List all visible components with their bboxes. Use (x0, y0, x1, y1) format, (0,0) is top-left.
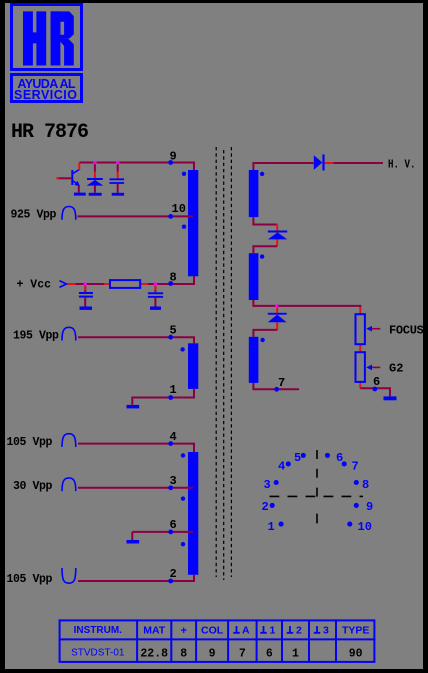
pin view dot 1 (279, 522, 284, 527)
pin 10 dot (168, 214, 173, 219)
svg-text:3: 3 (170, 474, 177, 488)
svg-text:105 Vpp: 105 Vpp (7, 573, 53, 586)
ground under transistor (74, 193, 86, 196)
table header ⊥3 (314, 626, 320, 633)
svg-text:6: 6 (266, 648, 273, 661)
svg-text:1: 1 (292, 648, 299, 661)
wire S2 bottom long node to FOCUS chain (253, 300, 360, 308)
svg-text:STVDST-01: STVDST-01 (71, 648, 125, 659)
pin view dot 3 (274, 480, 279, 485)
diode D2 (268, 231, 287, 240)
red segments Vcc row (67, 283, 148, 285)
wire S3 bottom pin7 row (253, 383, 299, 389)
pin 6 dot (168, 530, 173, 535)
red stub G2 bottom (359, 382, 361, 388)
red link FOCUS to G2 (359, 344, 361, 352)
capacitor C2 (79, 284, 93, 307)
wire pin8 row (+Vcc) (75, 276, 194, 284)
svg-text:105 Vpp: 105 Vpp (7, 436, 53, 449)
resistor G2 (356, 352, 365, 382)
wire pin1 to ground (132, 389, 194, 405)
junction dot (cap C2 top) (84, 282, 87, 285)
svg-text:1: 1 (270, 625, 276, 637)
pin view dot 6 (325, 453, 330, 458)
svg-text:2: 2 (262, 500, 269, 514)
svg-text:5: 5 (170, 324, 177, 338)
svg-text:3: 3 (323, 625, 329, 637)
svg-text:10: 10 (358, 520, 372, 534)
wire pin6 tap to ground (132, 532, 193, 540)
table header ⊥1 (260, 626, 266, 633)
svg-text:925 Vpp: 925 Vpp (11, 209, 57, 222)
capacitor C1 (110, 164, 125, 193)
svg-text:1: 1 (268, 520, 275, 534)
svg-text:4: 4 (170, 430, 177, 444)
pin 6 right dot (372, 387, 377, 392)
svg-text:8: 8 (180, 648, 187, 661)
polarity dot P1 top (182, 172, 186, 176)
pin view crosshair vertical (316, 450, 318, 498)
data table (59, 619, 376, 663)
wire S1 top to HV diode (253, 163, 313, 170)
pin 5 dot (168, 335, 173, 340)
Vcc input terminal (60, 281, 67, 288)
svg-text:+: + (180, 625, 186, 637)
svg-text:MAT: MAT (143, 625, 166, 637)
svg-text:H. V.: H. V. (388, 158, 416, 172)
wire pin10 row (925 Vpp) (78, 215, 194, 217)
polarity dot P3 b (181, 496, 185, 500)
svg-text:4: 4 (278, 460, 285, 474)
svg-text:FOCUS: FOCUS (389, 324, 424, 338)
svg-text:2: 2 (170, 567, 177, 581)
pin view dot 2 (270, 503, 275, 508)
waveform 105 Vpp inverted (62, 568, 76, 583)
FOCUS arrow (366, 326, 380, 332)
ground under C2 (80, 307, 93, 310)
junction dot (cap C3 top) (154, 282, 157, 285)
red stub into FOCUS resistor (359, 307, 361, 314)
svg-text:9: 9 (170, 150, 177, 164)
pin 8 dot (168, 281, 173, 286)
ground under capacitor C1 (112, 193, 124, 196)
secondary winding S3 (249, 337, 259, 383)
HV rectifier diode (314, 154, 325, 170)
ground under diode D1 (89, 193, 102, 196)
wire HV diode to H.V. label (333, 162, 383, 164)
svg-text:195 Vpp: 195 Vpp (13, 329, 59, 342)
pin 2 dot (168, 579, 173, 584)
svg-text:TYPE: TYPE (342, 625, 369, 637)
pin view crosshair horizontal (270, 495, 364, 497)
wire S1 bottom to diode D2 (253, 217, 277, 224)
red stub into D2 (276, 225, 278, 231)
svg-text:7: 7 (352, 460, 359, 474)
waveform 30 Vpp (62, 478, 76, 491)
primary winding P2 (pins 5-1) (188, 343, 198, 389)
pin 1 dot (168, 395, 173, 400)
polarity dot P2 (180, 347, 184, 351)
HR logo box (12, 5, 82, 103)
pin 7 dot (274, 387, 279, 392)
red stub after HV diode (325, 162, 334, 164)
resistor R1 (Vcc series) (110, 280, 140, 288)
letter H (23, 11, 46, 65)
capacitor C3 (148, 284, 163, 307)
waveform 195 Vpp (62, 327, 76, 340)
primary winding P3 (pins 4-3-6-2) (188, 452, 198, 575)
svg-text:1: 1 (170, 383, 177, 397)
svg-text:90: 90 (349, 648, 363, 661)
svg-text:7: 7 (239, 648, 246, 661)
junction dot (D3 node) (275, 304, 278, 307)
pin 4 dot (168, 441, 173, 446)
letter R (51, 11, 74, 65)
svg-text:2: 2 (296, 625, 302, 637)
polarity dot S3 (260, 338, 264, 342)
wire D2 to S2 top (253, 246, 277, 253)
polarity dot P1 mid (182, 225, 186, 229)
transformer core dashed lines (216, 147, 231, 580)
ground under C3 (150, 307, 161, 310)
svg-text:A: A (242, 625, 250, 637)
wire pin2 row (105 Vpp bottom) (78, 575, 194, 581)
resistor FOCUS (356, 314, 365, 344)
G2 arrow (366, 365, 380, 371)
polarity dot P3 c (181, 542, 185, 546)
wire pin3 row (30 Vpp) (78, 487, 193, 489)
svg-text:10: 10 (172, 202, 186, 216)
wire pin5 row (195 Vpp) (78, 337, 194, 343)
svg-text:6: 6 (336, 451, 343, 465)
wire pin4 row (105 Vpp) (78, 444, 194, 452)
diode D1 (damper to ground) (87, 164, 104, 193)
junction dot (cap C1 top) (116, 161, 119, 164)
polarity dot S2 (260, 254, 264, 258)
secondary winding S1 (249, 170, 259, 217)
svg-text:G2: G2 (389, 362, 403, 376)
svg-text:6: 6 (170, 518, 177, 532)
pin view dot 4 (286, 461, 291, 466)
table header ⊥2 (287, 626, 293, 633)
pin view dot 9 (354, 503, 359, 508)
svg-text:HR 7876: HR 7876 (11, 121, 88, 144)
svg-text:6: 6 (373, 375, 380, 389)
svg-text:SERVICIO: SERVICIO (14, 88, 77, 102)
junction dot (diode D1 top) (93, 161, 96, 164)
svg-text:22.8: 22.8 (140, 648, 168, 661)
secondary winding S2 (249, 253, 259, 300)
svg-text:+ Vcc: + Vcc (17, 278, 52, 291)
red stub node to D3 (276, 306, 278, 313)
wire G2 to pin6 and ground (360, 388, 390, 396)
waveform 925 Vpp (62, 207, 76, 220)
polarity dot S1 (260, 172, 264, 176)
pin view dot 8 (354, 480, 359, 485)
svg-text:8: 8 (362, 478, 369, 492)
polarity dot P3 a (181, 453, 185, 457)
svg-text:9: 9 (366, 500, 373, 514)
diode D3 (268, 313, 287, 322)
svg-text:INSTRUM.: INSTRUM. (74, 625, 123, 636)
wire D3 to S3 top (253, 330, 277, 337)
pin 3 dot (168, 485, 173, 490)
red stub D3 out (276, 322, 278, 330)
transistor Q1 (57, 163, 81, 193)
table header ⊥A (233, 626, 239, 633)
svg-text:COL: COL (201, 625, 224, 637)
ground at pin6 right (384, 396, 397, 400)
svg-text:3: 3 (264, 478, 271, 492)
pin 9 dot (168, 160, 173, 165)
primary winding P1 (pins 9-10-8) (188, 170, 198, 276)
ground at pin6 left (127, 540, 140, 544)
pin view dot 7 (342, 461, 347, 466)
pin view dot 10 (347, 522, 352, 527)
pin view dot 5 (301, 453, 306, 458)
svg-text:8: 8 (170, 271, 177, 285)
svg-text:7: 7 (278, 376, 285, 390)
ground at pin1 (127, 405, 140, 409)
wire pin9 row (79, 163, 194, 171)
red stub D2 out (276, 239, 278, 246)
svg-text:5: 5 (294, 451, 301, 465)
svg-text:30 Vpp: 30 Vpp (13, 480, 53, 493)
waveform 105 Vpp (62, 434, 76, 447)
svg-text:9: 9 (209, 648, 216, 661)
